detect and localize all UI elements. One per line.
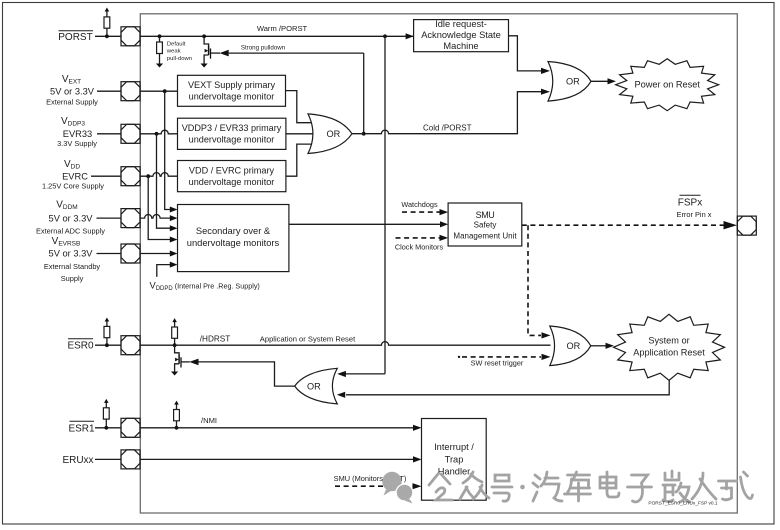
svg-text:Clock Monitors: Clock Monitors — [395, 242, 444, 251]
glyph zhong — [460, 472, 489, 499]
label FSPx pin — [677, 195, 712, 219]
svg-text:undervoltage monitor: undervoltage monitor — [189, 135, 275, 145]
wire SMU dashed to FSPx pad — [522, 221, 737, 229]
chip boundary — [140, 14, 737, 513]
svg-text:Secondary over &: Secondary over & — [196, 226, 271, 236]
svg-text:ESR0: ESR0 — [67, 341, 94, 352]
wire OR3 output to ESR0 pulldown gate — [199, 362, 296, 386]
svg-text:ESR1: ESR1 — [68, 423, 95, 434]
svg-text:ERUxx: ERUxx — [62, 455, 93, 466]
svg-text:Strong pulldown: Strong pulldown — [241, 45, 286, 52]
label VDDP3 pin — [57, 116, 121, 148]
svg-text:5V or 3.3V: 5V or 3.3V — [50, 87, 95, 97]
wire VDD monitor to OR1 — [286, 144, 312, 176]
box Interrupt / Trap Handler — [422, 419, 487, 501]
svg-text:PORST_ESR0_ERUx_FSP v0.1: PORST_ESR0_ERUx_FSP v0.1 — [648, 501, 718, 507]
label ESR0 pin — [67, 339, 121, 352]
svg-text:SMU: SMU — [476, 210, 495, 220]
svg-text:OR: OR — [567, 341, 581, 351]
wire warm PORST vertical down to ESR0 OR — [337, 36, 385, 377]
wire Warm /PORST — [140, 24, 414, 40]
svg-text:weak: weak — [166, 49, 181, 55]
svg-text:Application Reset: Application Reset — [633, 348, 705, 358]
starburst Power on Reset — [616, 59, 719, 111]
svg-text:5V or 3.3V: 5V or 3.3V — [49, 213, 94, 223]
box Idle request-Acknowledge State Machine — [414, 19, 509, 52]
svg-text:SW reset trigger: SW reset trigger — [471, 359, 524, 368]
wire system reset loop into OR3 lower input — [337, 378, 669, 398]
wire VDDM pad to secondary monitors — [140, 214, 178, 221]
svg-text:Watchdogs: Watchdogs — [401, 200, 438, 209]
svg-text:1.25V Core Supply: 1.25V Core Supply — [42, 182, 104, 191]
label VDDM pin — [36, 199, 121, 235]
wire idle machine to OR2 — [509, 36, 551, 74]
svg-text:EVR33: EVR33 — [63, 129, 92, 139]
glyph dian — [600, 472, 619, 497]
label VEVRSB pin — [44, 236, 121, 283]
svg-text:3.3V Supply: 3.3V Supply — [57, 139, 97, 148]
svg-text:Default: Default — [167, 41, 186, 47]
wire OR4 output to starburst — [591, 343, 614, 349]
label VEXT pin — [46, 74, 121, 107]
resistor internal pull-up on ESR0 — [172, 318, 178, 347]
wire SW reset trigger dashed — [458, 354, 551, 368]
box VEXT supply primary undervoltage monitor — [178, 75, 286, 106]
svg-text:Management Unit: Management Unit — [453, 231, 517, 240]
svg-text:OR: OR — [566, 77, 580, 87]
transistor strong pulldown on ESR0 — [171, 345, 199, 375]
svg-text:Application or System Reset: Application or System Reset — [260, 335, 356, 344]
svg-text:5V or 3.3V: 5V or 3.3V — [49, 249, 94, 259]
wire OR2 output to Power on Reset — [591, 78, 616, 84]
pad FSPx — [737, 216, 756, 235]
box Secondary over & undervoltage monitors — [178, 205, 289, 272]
svg-text:External Supply: External Supply — [46, 98, 98, 107]
wire strong pulldown control from OR1 output — [362, 53, 366, 136]
svg-text:Power on Reset: Power on Reset — [635, 80, 701, 90]
pad PORST — [121, 27, 140, 46]
wire Watchdogs dashed into SMU — [401, 200, 448, 215]
resistor external pull-up on ESR0 — [104, 318, 110, 348]
pad VEVRSB — [121, 244, 140, 263]
glyph che — [565, 472, 591, 501]
resistor default weak pull-down — [156, 36, 192, 67]
svg-text:Supply: Supply — [61, 274, 84, 283]
wire VDDP3 pad to monitor — [140, 130, 178, 231]
resistor external pull-up on ESR1 — [103, 399, 109, 430]
wire SMU monitors WDT dashed to interrupt handler — [334, 474, 422, 489]
svg-text:Safety: Safety — [474, 221, 497, 230]
glyph ru — [692, 473, 716, 499]
box SMU Safety Management Unit — [448, 203, 522, 246]
watermark wechat logo — [382, 472, 413, 504]
wire VDDP3 monitor to OR1 — [286, 133, 317, 135]
glyph qi — [533, 472, 562, 501]
svg-text:Error Pin x: Error Pin x — [677, 210, 712, 219]
svg-text:EVRC: EVRC — [62, 172, 88, 182]
svg-text:Machine: Machine — [443, 41, 478, 51]
svg-text:External ADC Supply: External ADC Supply — [36, 226, 105, 235]
box VDD / EVRC primary undervoltage monitor — [178, 161, 286, 192]
glyph zi — [628, 475, 652, 502]
or-gate OR2 power-on-reset — [548, 62, 591, 102]
svg-text:Warm /PORST: Warm /PORST — [257, 24, 308, 33]
transistor strong pulldown on PORST — [201, 36, 364, 67]
label ERUxx pin — [62, 455, 121, 466]
pad VDDP3 — [121, 124, 140, 143]
svg-text:System or: System or — [648, 336, 689, 346]
svg-text:undervoltage monitors: undervoltage monitors — [187, 238, 280, 248]
svg-text:VDDP3 / EVR33 primary: VDDP3 / EVR33 primary — [182, 123, 282, 133]
wire SMU dashed branch down to reset OR4 — [528, 225, 551, 338]
starburst System or Application Reset — [614, 314, 725, 380]
svg-text:FSPx: FSPx — [678, 198, 702, 209]
wire VEXT monitor to OR1 — [286, 91, 312, 123]
svg-text:OR: OR — [327, 129, 341, 139]
pad ESR0 — [121, 336, 140, 355]
wire VDDPD to secondary monitors — [157, 262, 178, 277]
svg-text:undervoltage monitor: undervoltage monitor — [189, 177, 275, 187]
label ESR1 pin — [68, 421, 121, 434]
wire ESR1 /NMI to interrupt handler — [140, 416, 422, 431]
svg-text:/NMI: /NMI — [201, 416, 217, 425]
pad VDD — [121, 167, 140, 186]
svg-text:VEXT Supply primary: VEXT Supply primary — [188, 80, 275, 90]
svg-text:Interrupt /: Interrupt / — [434, 442, 474, 452]
glyph middle dot — [520, 485, 525, 490]
resistor internal pull-up on ESR1 — [174, 401, 180, 430]
watermark text 公众号 · 汽车电子嵌入式 (drawn strokes) — [429, 471, 753, 502]
label PORST pin — [58, 31, 121, 43]
svg-text:Idle request-: Idle request- — [435, 19, 487, 29]
wire secondary monitors to SMU — [289, 221, 448, 227]
svg-text:OR: OR — [307, 381, 321, 391]
or-gate OR4 system reset — [550, 326, 591, 366]
wire VEVRSB pad to secondary monitors — [140, 251, 178, 257]
pad ESR1 — [121, 418, 140, 437]
svg-text:pull-down: pull-down — [167, 56, 192, 62]
wire VEXT pad to monitor — [140, 89, 178, 212]
glyph qian — [663, 471, 690, 502]
svg-text:Trap: Trap — [445, 454, 464, 464]
svg-text:undervoltage monitor: undervoltage monitor — [189, 92, 275, 102]
glyph gong — [429, 474, 452, 500]
svg-text:Cold /PORST: Cold /PORST — [423, 123, 472, 132]
pad VEXT — [121, 82, 140, 101]
pad ERUxx — [121, 450, 140, 469]
svg-text:PORST: PORST — [58, 32, 92, 43]
svg-text:Acknowledge State: Acknowledge State — [421, 30, 501, 40]
svg-text:External Standby: External Standby — [44, 262, 101, 271]
box VDDP3 / EVR33 primary undervoltage monitor — [178, 118, 286, 149]
wire ERUxx to interrupt handler — [140, 456, 422, 462]
svg-text:/HDRST: /HDRST — [200, 335, 230, 344]
wire VDD pad to monitor — [140, 173, 178, 243]
glyph shi — [719, 472, 753, 500]
wire Cold /PORST — [352, 89, 550, 134]
wire Clock Monitors dashed into SMU — [395, 235, 448, 252]
wire ESR0 /HDRST line — [140, 335, 551, 346]
pad VDDM — [121, 209, 140, 228]
or-gate OR3 mirrored — [295, 368, 338, 404]
svg-text:VDD / EVRC primary: VDD / EVRC primary — [189, 165, 275, 175]
glyph hao — [492, 475, 512, 501]
resistor external pull-up on PORST — [104, 8, 110, 39]
label VDD pin — [42, 159, 121, 190]
or-gate OR1 undervoltage — [308, 114, 352, 154]
